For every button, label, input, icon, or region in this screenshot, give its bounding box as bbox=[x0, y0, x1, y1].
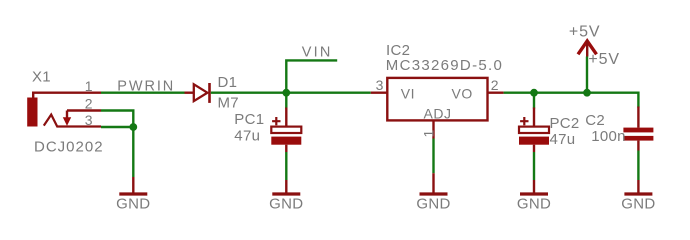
junction node +5V bbox=[583, 89, 591, 97]
supply symbol +5V bbox=[578, 41, 597, 54]
svg-text:PC1: PC1 bbox=[234, 111, 264, 128]
svg-text:100n: 100n bbox=[591, 128, 626, 145]
svg-text:D1: D1 bbox=[218, 74, 238, 91]
wire PC1 to GND bbox=[285, 152, 287, 180]
svg-text:1: 1 bbox=[420, 130, 436, 138]
svg-text:VO: VO bbox=[452, 86, 473, 102]
svg-text:GND: GND bbox=[269, 196, 303, 213]
wire +5V rail to C2 bbox=[637, 92, 639, 108]
ground GND (below PC1) bbox=[272, 180, 300, 194]
ground GND (below PC2) bbox=[520, 180, 548, 194]
svg-text:3: 3 bbox=[85, 112, 93, 128]
svg-text:GND: GND bbox=[416, 196, 450, 213]
wire net +5V (IC2 pin 2 to C2) bbox=[504, 91, 639, 93]
wire ADJ pin to GND bbox=[432, 139, 434, 174]
svg-text:47u: 47u bbox=[550, 131, 576, 148]
junction node PC2 bbox=[530, 89, 538, 97]
wire pin3 to junction bbox=[101, 126, 133, 128]
svg-text:X1: X1 bbox=[32, 69, 51, 86]
svg-text:GND: GND bbox=[621, 196, 655, 213]
junction (X1 ground node) bbox=[129, 123, 137, 131]
svg-text:DCJ0202: DCJ0202 bbox=[34, 138, 104, 155]
capacitor C2 bbox=[623, 107, 653, 151]
wire pin2 to junction bbox=[101, 111, 133, 128]
svg-text:PC2: PC2 bbox=[550, 115, 580, 132]
wire D1 to IC2 pin 3 bbox=[211, 91, 371, 93]
wire junction to PC2 bbox=[533, 93, 535, 109]
svg-text:GND: GND bbox=[517, 196, 551, 213]
connector X1 (DC jack symbol) bbox=[27, 93, 101, 127]
wire junction to GND bbox=[132, 127, 134, 177]
wire junction to PC1 bbox=[285, 93, 287, 109]
svg-text:1: 1 bbox=[85, 78, 93, 94]
svg-text:C2: C2 bbox=[585, 112, 605, 129]
svg-text:47u: 47u bbox=[234, 128, 260, 145]
svg-text:+5V: +5V bbox=[569, 24, 601, 41]
wire junction to +5V supply bbox=[586, 57, 588, 93]
capacitor PC2 (polarized) bbox=[519, 108, 549, 153]
svg-text:MC33269D-5.0: MC33269D-5.0 bbox=[386, 57, 503, 74]
ground GND (below IC2) bbox=[420, 173, 448, 194]
junction node VIN bbox=[282, 89, 290, 97]
ground GND (below X1) bbox=[119, 177, 147, 194]
svg-text:VI: VI bbox=[401, 86, 415, 102]
regulator IC2 bbox=[371, 78, 504, 139]
ground GND (below C2) bbox=[624, 180, 652, 194]
svg-text:GND: GND bbox=[116, 196, 150, 213]
svg-text:M7: M7 bbox=[218, 95, 239, 112]
svg-text:2: 2 bbox=[491, 77, 499, 93]
svg-text:3: 3 bbox=[376, 77, 384, 93]
diode D1 bbox=[185, 83, 210, 103]
svg-text:+5V: +5V bbox=[588, 51, 620, 68]
wire net PWRIN (pin1 to diode) bbox=[101, 91, 185, 93]
svg-text:PWRIN: PWRIN bbox=[117, 79, 175, 95]
svg-text:2: 2 bbox=[85, 96, 93, 112]
wire C2 to GND bbox=[637, 151, 639, 181]
svg-text:ADJ: ADJ bbox=[424, 106, 452, 122]
svg-text:VIN: VIN bbox=[302, 45, 333, 61]
wire VIN label stub bbox=[286, 60, 337, 92]
wire PC2 to GND bbox=[533, 152, 535, 180]
capacitor PC1 (polarized) bbox=[271, 108, 301, 153]
